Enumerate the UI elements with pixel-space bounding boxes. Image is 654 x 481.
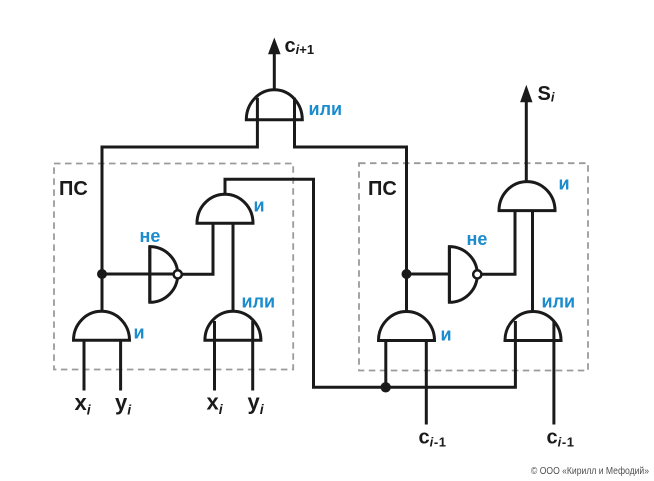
- half-adder box ПС right (dashed): [359, 163, 588, 370]
- svg-text:ci+1: ci+1: [285, 35, 315, 57]
- svg-text:ПС: ПС: [59, 178, 88, 200]
- arrowhead output c_i+1: [268, 38, 281, 55]
- wire: node A to U8 input: [102, 273, 175, 276]
- node A junction dot: [97, 269, 107, 279]
- svg-text:не: не: [467, 229, 488, 249]
- and-gate U3 left-bottom (И, carry left PS): [74, 311, 130, 340]
- svg-text:или: или: [309, 99, 343, 119]
- wire: U4 output to U2 right input: [232, 223, 235, 311]
- wire: node B to U9 input: [407, 273, 449, 276]
- inversion bubble U9: [473, 270, 481, 278]
- wire: input x_i to U4: [213, 321, 216, 391]
- and-gate U2 left-top (И, XOR stage left PS): [197, 194, 253, 223]
- half-adder box ПС left (dashed): [54, 164, 293, 370]
- wire: input c_i-1 to U7: [552, 321, 555, 425]
- svg-text:и: и: [254, 196, 265, 216]
- not-gate U9 right (НЕ): [449, 247, 477, 303]
- or-gate U4 left-bottom (ИЛИ left PS): [205, 311, 261, 340]
- wire: U8 output to U2 left input: [183, 223, 214, 274]
- wire: U9 output to U5 left input: [482, 211, 515, 274]
- and-gate U5 right-top (И, sum out): [499, 182, 555, 211]
- svg-text:ПС: ПС: [368, 178, 397, 200]
- not-gate U8 left (НЕ): [150, 247, 178, 303]
- wire: U2 output up, right, down between boxes, right to U7 left input: [225, 179, 515, 387]
- svg-text:или: или: [542, 292, 576, 312]
- wire: U1 output to arrow c_i+1: [273, 51, 276, 90]
- wire: input y_i to U3: [119, 340, 122, 390]
- svg-text:xi: xi: [75, 390, 92, 418]
- svg-text:ci-1: ci-1: [419, 427, 447, 450]
- wire: input x_i to U3: [83, 340, 86, 390]
- svg-text:ci-1: ci-1: [547, 427, 575, 450]
- wire: U5 output to arrow S_i: [525, 100, 528, 181]
- svg-text:yi: yi: [115, 390, 132, 418]
- wire: U6 left input to node C: [384, 341, 387, 388]
- svg-text:Si: Si: [538, 83, 555, 105]
- svg-text:и: и: [441, 325, 452, 345]
- arrowhead output S_i: [520, 85, 532, 102]
- svg-text:или: или: [242, 292, 276, 312]
- node B junction dot: [402, 269, 412, 279]
- and-gate U6 right-bottom (И, carry right PS): [379, 312, 435, 341]
- svg-text:© ООО «Кирилл и Мефодий»: © ООО «Кирилл и Мефодий»: [531, 465, 649, 477]
- or-gate U1 top (ИЛИ, carry out): [246, 90, 302, 120]
- wire: input c_i-1 to U6: [425, 341, 428, 425]
- svg-text:xi: xi: [207, 390, 224, 418]
- wire: top OR left input down, left to node A, down to U3 output: [102, 98, 257, 312]
- svg-text:и: и: [559, 174, 570, 194]
- svg-text:не: не: [140, 226, 161, 246]
- inversion bubble U8: [174, 270, 182, 278]
- wire: U7 output to U5 right input: [531, 211, 534, 312]
- or-gate U7 right-bottom (ИЛИ right PS): [505, 312, 561, 341]
- wire: input y_i to U4: [251, 321, 254, 391]
- svg-text:yi: yi: [248, 390, 265, 418]
- node C junction dot: [381, 382, 391, 392]
- wire: top OR right input down, right, down to U6 output: [295, 98, 407, 312]
- svg-text:и: и: [134, 323, 145, 343]
